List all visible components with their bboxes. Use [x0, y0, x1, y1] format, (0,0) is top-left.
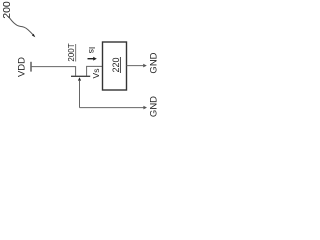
arrowhead bottom GND — [143, 106, 147, 110]
transistor 200T gate arrow — [78, 77, 81, 80]
leader line from 200 — [8, 16, 33, 35]
transistor 200T channel bar — [71, 75, 90, 77]
svg-text:VDD: VDD — [17, 57, 28, 77]
current arrow Is — [88, 58, 94, 60]
transistor Q 200T source leg and wire to box — [87, 66, 103, 76]
underline of 220 — [119, 57, 121, 73]
wire gate to GND (bottom) — [80, 107, 144, 109]
svg-text:200: 200 — [1, 1, 13, 19]
block 220 — [103, 42, 127, 90]
gate wire down — [79, 81, 81, 108]
svg-text:220: 220 — [111, 57, 121, 72]
svg-text:Is: Is — [87, 47, 97, 54]
underline of 200T — [75, 44, 77, 62]
svg-text:Vs: Vs — [91, 69, 101, 79]
VDD terminal bar — [30, 62, 32, 72]
svg-text:GND: GND — [148, 52, 159, 73]
wire VDD to transistor drain — [31, 67, 76, 76]
svg-text:GND: GND — [148, 96, 159, 117]
arrowhead top GND — [143, 64, 147, 68]
wire box to GND (top) — [127, 65, 144, 67]
svg-text:200T: 200T — [67, 43, 76, 61]
